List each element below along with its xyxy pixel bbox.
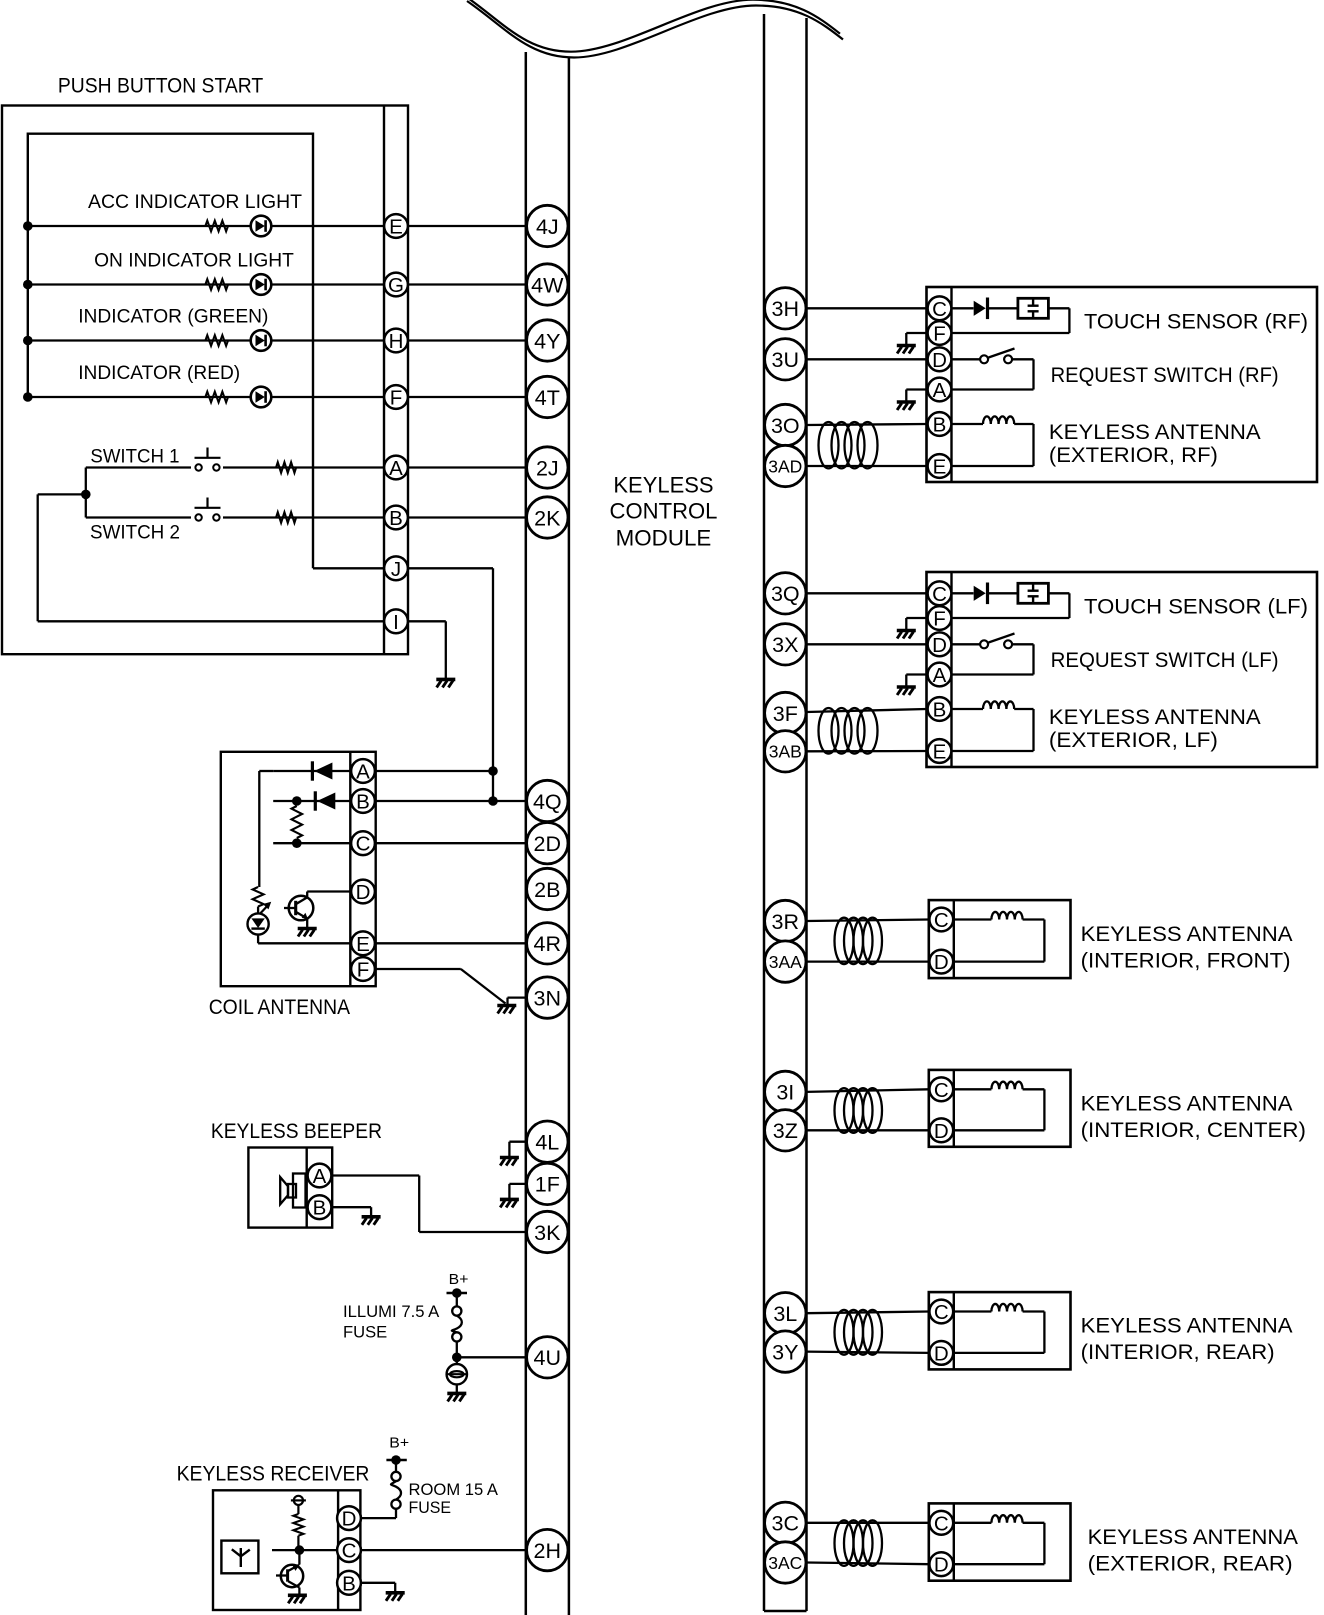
wire - beeper pin A to 3K xyxy=(332,1174,419,1176)
connector pin E exterior LF xyxy=(928,739,952,763)
wire - coil antenna pin A row xyxy=(273,770,350,772)
module pin 2H xyxy=(527,1529,568,1570)
svg-text:4Q: 4Q xyxy=(533,790,562,814)
connector pin C (INTERIOR, FRONT) xyxy=(929,908,953,932)
svg-text:C: C xyxy=(342,1540,357,1563)
module pin 4T xyxy=(527,376,568,417)
touch sensor / request switch / keyless antenna (exterior RF) box xyxy=(927,287,1318,482)
diode - coil antenna A xyxy=(311,761,314,780)
LED - on indicator light xyxy=(251,274,272,295)
touch sensor / request switch / keyless antenna (exterior LF) box xyxy=(927,572,1318,767)
svg-text:C: C xyxy=(934,909,949,932)
module pin 3H xyxy=(765,288,806,329)
connector pin F xyxy=(384,385,408,409)
svg-text:D: D xyxy=(934,1342,949,1365)
ground - coil antenna pin F / 3N xyxy=(497,1004,516,1008)
connector pin H xyxy=(384,329,408,353)
twisted pair - (INTERIOR, REAR) xyxy=(807,1312,929,1314)
ground - touch sensor (LF) xyxy=(897,629,916,633)
module pin 4L xyxy=(527,1121,568,1162)
svg-text:C: C xyxy=(934,1301,949,1324)
junction dot indicator (green) xyxy=(23,336,33,346)
connector pin E exterior RF xyxy=(928,454,952,478)
connector pin J xyxy=(384,556,408,580)
inductor - keyless antenna (INTERIOR, CENTER) xyxy=(954,1088,992,1090)
keyless antenna (INTERIOR, REAR) box xyxy=(929,1292,1071,1369)
wire - on indicator light row xyxy=(28,283,526,285)
connector strip - (INTERIOR, REAR) xyxy=(953,1292,955,1369)
inductor - keyless antenna (EXTERIOR, REAR) xyxy=(954,1522,992,1524)
resistor - switch 1 xyxy=(276,462,296,473)
svg-text:KEYLESS: KEYLESS xyxy=(613,473,713,498)
connector pin F exterior LF xyxy=(928,606,952,630)
svg-text:FUSE: FUSE xyxy=(343,1322,387,1341)
wire - coil antenna pin C row to 2D xyxy=(273,842,350,844)
module pin 3AA xyxy=(765,941,806,982)
wire - antenna loop (INTERIOR, CENTER) xyxy=(1023,1088,1045,1090)
svg-text:REQUEST SWITCH (RF): REQUEST SWITCH (RF) xyxy=(1051,363,1279,387)
svg-text:KEYLESS RECEIVER: KEYLESS RECEIVER xyxy=(177,1462,370,1486)
wire - pin J to coil antenna node xyxy=(313,567,384,569)
wire - 3Q to pin C xyxy=(807,592,927,594)
wire - transistor emitter to ground xyxy=(306,919,308,928)
inductor - keyless antenna exterior RF xyxy=(952,423,984,425)
svg-text:KEYLESS BEEPER: KEYLESS BEEPER xyxy=(211,1119,382,1143)
keyless antenna (EXTERIOR, REAR) box xyxy=(929,1503,1071,1580)
connector strip - push button start xyxy=(383,106,385,655)
request switch (RF) xyxy=(952,358,981,360)
speaker - keyless beeper xyxy=(293,1174,306,1208)
connector pin coil B xyxy=(351,789,375,813)
svg-text:3AD: 3AD xyxy=(768,456,802,476)
svg-text:F: F xyxy=(390,387,403,410)
svg-text:3R: 3R xyxy=(772,910,799,934)
ground - request switch (RF) xyxy=(897,400,916,404)
svg-text:3AA: 3AA xyxy=(769,952,802,972)
connector strip - keyless receiver xyxy=(337,1490,339,1610)
module pin 4R xyxy=(527,923,568,964)
svg-text:D: D xyxy=(356,881,371,904)
junction dot acc indicator light xyxy=(23,221,33,231)
connector pin G xyxy=(384,273,408,297)
svg-text:4T: 4T xyxy=(535,386,560,410)
ground - illumination lamp xyxy=(447,1392,466,1396)
ground - touch sensor (RF) xyxy=(897,344,916,348)
module pin 1F xyxy=(527,1163,568,1204)
svg-text:(EXTERIOR, LF): (EXTERIOR, LF) xyxy=(1049,728,1218,752)
wire - antenna loop (INTERIOR, FRONT) xyxy=(1023,918,1045,920)
connector pin beeper B xyxy=(308,1195,332,1219)
module pin 2J xyxy=(527,447,568,488)
svg-text:1F: 1F xyxy=(535,1173,560,1197)
wire - receiver pin B to ground xyxy=(360,1582,395,1584)
power B+ terminal (room) xyxy=(391,1455,401,1465)
module pin 3C xyxy=(765,1502,806,1543)
keyless antenna (INTERIOR, FRONT) box xyxy=(929,900,1071,978)
connector pin beeper A xyxy=(308,1164,332,1188)
svg-text:3O: 3O xyxy=(771,414,800,438)
wire - switch 2 row xyxy=(86,516,526,518)
request switch (LF) xyxy=(952,643,981,645)
diode - touch sensor (RF) xyxy=(952,307,974,309)
wire - coil antenna A internal left branch xyxy=(259,770,273,772)
LED - acc indicator light xyxy=(251,216,272,237)
wire - antenna loop to pin E (LF) xyxy=(1014,708,1033,710)
svg-text:(EXTERIOR, RF): (EXTERIOR, RF) xyxy=(1049,443,1218,467)
connector pin B exterior RF xyxy=(928,412,952,436)
connector pin C (INTERIOR, CENTER) xyxy=(929,1077,953,1101)
module pin 2D xyxy=(527,823,568,864)
connector pin F exterior RF xyxy=(928,321,952,345)
svg-text:KEYLESS ANTENNA: KEYLESS ANTENNA xyxy=(1088,1525,1299,1549)
module pin 3K xyxy=(527,1211,568,1252)
svg-text:ON INDICATOR LIGHT: ON INDICATOR LIGHT xyxy=(94,249,294,271)
module pin 4Y xyxy=(527,320,568,361)
connector pin A exterior RF xyxy=(928,378,952,402)
transistor - keyless receiver xyxy=(298,1550,300,1564)
svg-text:SWITCH 2: SWITCH 2 xyxy=(90,522,180,544)
svg-text:A: A xyxy=(313,1165,327,1188)
variable resistor - coil antenna xyxy=(253,887,264,907)
junction dot J node B row xyxy=(488,796,498,806)
module pin 3I xyxy=(765,1071,806,1112)
svg-text:B: B xyxy=(933,699,947,722)
connector pin coil C xyxy=(351,831,375,855)
transistor - coil antenna xyxy=(289,896,314,921)
wire - indicator (red) row xyxy=(28,396,526,398)
connector strip - exterior LF group xyxy=(950,572,952,767)
connector pin coil F xyxy=(351,957,375,981)
resistor - receiver xyxy=(297,1505,299,1514)
connector pin E xyxy=(384,214,408,238)
connector strip - (INTERIOR, CENTER) xyxy=(953,1070,955,1147)
touch pad - touch sensor (RF) xyxy=(1018,298,1049,318)
wire - pin F to ground (RF) xyxy=(906,332,926,334)
module pin 3AB xyxy=(765,731,806,772)
module pin 3U xyxy=(765,339,806,380)
svg-text:4W: 4W xyxy=(531,273,564,297)
svg-text:B: B xyxy=(389,507,403,530)
wire - antenna loop to pin E (RF) xyxy=(1014,423,1033,425)
wire - receiver C to 2H xyxy=(360,1549,525,1551)
svg-text:3AC: 3AC xyxy=(768,1553,802,1573)
connector pin coil D xyxy=(351,880,375,904)
connector pin B exterior LF xyxy=(928,697,952,721)
svg-text:E: E xyxy=(933,456,947,479)
svg-text:E: E xyxy=(389,216,403,239)
connector pin A exterior LF xyxy=(928,663,952,687)
ground - receiver transistor xyxy=(298,1588,300,1595)
svg-text:3U: 3U xyxy=(772,348,799,372)
arrow - variable resistor xyxy=(256,905,269,919)
module pin 4Q xyxy=(527,780,568,821)
ground - receiver pin B xyxy=(386,1591,405,1595)
svg-text:B: B xyxy=(933,414,947,437)
keyless receiver box xyxy=(213,1490,360,1610)
ground - 4L pin xyxy=(509,1141,525,1143)
svg-text:D: D xyxy=(932,634,947,657)
svg-text:C: C xyxy=(932,583,947,606)
module pin 3Q xyxy=(765,573,806,614)
svg-text:KEYLESS ANTENNA: KEYLESS ANTENNA xyxy=(1049,420,1261,444)
wire - 3X to pin D xyxy=(807,643,927,645)
wire - lamp to ground xyxy=(456,1384,458,1392)
resistor - switch 2 xyxy=(276,512,296,523)
svg-text:4U: 4U xyxy=(534,1346,561,1370)
module pin 4W xyxy=(527,264,568,305)
svg-text:4J: 4J xyxy=(536,215,559,239)
ground - request switch (LF) xyxy=(897,685,916,689)
module pin 3L xyxy=(765,1293,806,1334)
svg-text:J: J xyxy=(391,558,401,581)
svg-text:KEYLESS ANTENNA: KEYLESS ANTENNA xyxy=(1081,1091,1294,1115)
diode - touch sensor (LF) xyxy=(952,592,974,594)
svg-text:3Z: 3Z xyxy=(773,1119,798,1143)
ground - keyless beeper xyxy=(362,1215,381,1219)
connector pin D (INTERIOR, FRONT) xyxy=(929,950,953,974)
coil antenna box xyxy=(221,752,376,986)
wire - pin F to ground (LF) xyxy=(906,617,926,619)
connector pin I xyxy=(384,609,408,633)
switch SW1 (push button) xyxy=(191,460,223,475)
svg-text:3H: 3H xyxy=(772,297,799,321)
switch SW2 (push button) xyxy=(191,510,223,525)
wire - antenna loop (INTERIOR, REAR) xyxy=(1023,1310,1045,1312)
power B+ terminal (illumi) xyxy=(452,1288,462,1298)
svg-text:3C: 3C xyxy=(772,1512,799,1536)
module pin 2B xyxy=(527,868,568,909)
svg-text:H: H xyxy=(389,330,404,353)
keyless antenna (INTERIOR, CENTER) box xyxy=(929,1070,1071,1147)
inductor - keyless antenna (INTERIOR, REAR) xyxy=(954,1310,992,1312)
wire - transistor collector to pin D xyxy=(306,892,308,898)
connector pin C exterior LF xyxy=(928,581,952,605)
wire - coil antenna pin B row to 4Q xyxy=(273,800,350,802)
module pin 3R xyxy=(765,900,806,941)
connector pin B xyxy=(384,506,408,530)
connector pin receiver D xyxy=(337,1506,361,1530)
junction dot J node A row xyxy=(488,766,498,776)
svg-text:D: D xyxy=(932,349,947,372)
wire - request switch loop to pin A (RF) xyxy=(1012,358,1033,360)
svg-text:B: B xyxy=(342,1572,356,1595)
svg-text:B: B xyxy=(313,1197,327,1220)
junction dot coil B xyxy=(292,796,302,806)
svg-text:4R: 4R xyxy=(534,932,561,956)
svg-text:D: D xyxy=(342,1508,357,1531)
svg-text:CONTROL: CONTROL xyxy=(610,499,718,524)
wire - coil antenna LED to pin E xyxy=(257,935,259,944)
connector pin receiver C xyxy=(337,1538,361,1562)
resistor - indicator (red) xyxy=(205,392,228,403)
svg-text:F: F xyxy=(933,323,946,346)
ground - push button start pin I xyxy=(436,678,455,682)
wire - touch sensor loop to pin F (LF) xyxy=(1048,592,1069,594)
svg-text:3N: 3N xyxy=(534,986,561,1010)
svg-text:3X: 3X xyxy=(772,633,798,657)
ground - coil antenna transistor xyxy=(298,927,317,931)
keyless beeper box xyxy=(248,1148,332,1228)
module pin 3O xyxy=(765,404,806,445)
connector strip - (INTERIOR, FRONT) xyxy=(953,900,955,978)
wire - touch sensor loop to pin F (RF) xyxy=(1048,307,1069,309)
connector pin C (EXTERIOR, REAR) xyxy=(929,1511,953,1535)
resistor - indicator (green) xyxy=(205,335,228,346)
svg-text:MODULE: MODULE xyxy=(616,525,712,550)
svg-text:3L: 3L xyxy=(773,1302,797,1326)
junction dot coil C xyxy=(292,838,302,848)
module pin 3F xyxy=(765,692,806,733)
wire - pin A to ground (LF) xyxy=(906,673,926,675)
twisted pair - keyless antenna exterior LF xyxy=(807,709,927,712)
wire - request switch loop to pin A (LF) xyxy=(1012,643,1033,645)
wire - 3H to pin C xyxy=(807,307,927,309)
svg-text:A: A xyxy=(389,457,403,480)
svg-text:C: C xyxy=(356,833,371,856)
svg-text:A: A xyxy=(933,379,947,402)
svg-text:C: C xyxy=(932,298,947,321)
resistor - acc indicator light xyxy=(205,221,228,232)
fuse ILLUMI 7.5 A xyxy=(456,1293,458,1307)
connector strip - (EXTERIOR, REAR) xyxy=(953,1503,955,1580)
svg-text:(INTERIOR, FRONT): (INTERIOR, FRONT) xyxy=(1081,949,1291,973)
svg-text:ROOM 15 A: ROOM 15 A xyxy=(409,1480,499,1499)
svg-text:C: C xyxy=(934,1512,949,1535)
svg-text:3Y: 3Y xyxy=(772,1340,798,1364)
wire - switch common xyxy=(85,468,87,518)
twisted pair - keyless antenna exterior RF xyxy=(807,424,927,425)
svg-text:KEYLESS ANTENNA: KEYLESS ANTENNA xyxy=(1081,922,1294,946)
module pin 3AC xyxy=(765,1542,806,1583)
lamp - illumination xyxy=(456,1357,458,1364)
crystal - receiver top xyxy=(294,1496,303,1505)
connector pin C exterior RF xyxy=(928,296,952,320)
wire - coil antenna pin E row to 4R xyxy=(376,942,526,944)
svg-text:3I: 3I xyxy=(776,1081,794,1105)
junction dot switch common xyxy=(81,490,91,500)
svg-text:INDICATOR (RED): INDICATOR (RED) xyxy=(78,362,240,384)
module pin 3AD xyxy=(765,445,806,486)
svg-text:B: B xyxy=(356,791,370,814)
svg-text:COIL ANTENNA: COIL ANTENNA xyxy=(209,996,350,1019)
junction dot indicator (red) xyxy=(23,392,33,402)
connector pin A xyxy=(384,456,408,480)
wire - fuse to 4U xyxy=(457,1356,526,1358)
svg-text:F: F xyxy=(933,608,946,631)
LED - coil antenna xyxy=(248,913,269,934)
wire - switch 1 row xyxy=(86,466,526,468)
module pin 2K xyxy=(527,497,568,538)
svg-text:E: E xyxy=(356,933,370,956)
svg-text:ILLUMI 7.5 A: ILLUMI 7.5 A xyxy=(343,1302,440,1321)
svg-text:TOUCH SENSOR (RF): TOUCH SENSOR (RF) xyxy=(1084,310,1308,334)
svg-text:INDICATOR (GREEN): INDICATOR (GREEN) xyxy=(78,305,268,327)
svg-text:4L: 4L xyxy=(535,1131,559,1155)
junction dot receiver xyxy=(295,1545,305,1555)
wire - receiver pin D to fuse xyxy=(360,1517,396,1519)
antenna - receiver xyxy=(221,1541,258,1574)
LED - indicator (red) xyxy=(251,387,272,408)
wire - beeper pin B to ground xyxy=(332,1206,371,1208)
connector pin D (EXTERIOR, REAR) xyxy=(929,1552,953,1576)
resistor - coil antenna B-C xyxy=(292,806,303,838)
wire - ground to 3N xyxy=(506,998,508,1006)
resistor - on indicator light xyxy=(205,279,228,290)
svg-text:D: D xyxy=(934,1554,949,1577)
inductor - keyless antenna (INTERIOR, FRONT) xyxy=(954,918,992,920)
svg-text:A: A xyxy=(356,761,370,784)
connector pin D (INTERIOR, REAR) xyxy=(929,1341,953,1365)
svg-text:A: A xyxy=(933,664,947,687)
svg-text:3AB: 3AB xyxy=(769,742,802,762)
wire - pin A to ground (RF) xyxy=(906,388,926,390)
module pin 3N xyxy=(527,977,568,1018)
svg-text:3Q: 3Q xyxy=(771,582,800,606)
connector pin D (INTERIOR, CENTER) xyxy=(929,1118,953,1142)
svg-text:C: C xyxy=(934,1079,949,1102)
svg-text:2H: 2H xyxy=(534,1539,561,1563)
diode - coil antenna B xyxy=(314,791,317,810)
wire - keyless control module left bus xyxy=(525,52,528,1615)
LED - indicator (green) xyxy=(251,330,272,351)
svg-text:(EXTERIOR, REAR): (EXTERIOR, REAR) xyxy=(1088,1552,1293,1576)
svg-text:2B: 2B xyxy=(534,878,560,902)
wire - torn-edge break curve at top xyxy=(467,1,843,58)
svg-text:2D: 2D xyxy=(534,832,561,856)
ground - 1F pin xyxy=(509,1183,525,1185)
wire - acc indicator light row xyxy=(28,225,526,227)
connector strip - exterior RF group xyxy=(950,287,952,482)
wire - 3U to pin D xyxy=(807,358,927,360)
connector pin C (INTERIOR, REAR) xyxy=(929,1300,953,1324)
svg-text:KEYLESS ANTENNA: KEYLESS ANTENNA xyxy=(1049,705,1261,729)
wire - antenna loop (EXTERIOR, REAR) xyxy=(1023,1522,1045,1524)
module pin 3Y xyxy=(765,1331,806,1372)
svg-text:G: G xyxy=(388,274,404,297)
svg-text:(INTERIOR, REAR): (INTERIOR, REAR) xyxy=(1081,1340,1275,1364)
svg-text:(INTERIOR, CENTER): (INTERIOR, CENTER) xyxy=(1081,1118,1306,1142)
connector pin coil A xyxy=(351,759,375,783)
module pin 4U xyxy=(527,1337,568,1378)
svg-text:ACC INDICATOR LIGHT: ACC INDICATOR LIGHT xyxy=(88,191,302,213)
junction dot on indicator light xyxy=(23,280,33,290)
svg-text:E: E xyxy=(933,741,947,764)
wire - keyless control module right bus xyxy=(763,14,766,1611)
svg-text:REQUEST SWITCH (LF): REQUEST SWITCH (LF) xyxy=(1051,648,1279,672)
svg-text:D: D xyxy=(934,1120,949,1143)
svg-text:2J: 2J xyxy=(536,456,559,480)
svg-text:FUSE: FUSE xyxy=(409,1498,452,1517)
svg-text:D: D xyxy=(934,951,949,974)
svg-text:2K: 2K xyxy=(534,506,561,530)
svg-text:F: F xyxy=(357,959,370,982)
wire - pin I to ground xyxy=(409,620,446,622)
svg-text:TOUCH SENSOR (LF): TOUCH SENSOR (LF) xyxy=(1084,595,1308,619)
twisted pair - (EXTERIOR, REAR) xyxy=(807,1522,929,1524)
connector pin D exterior LF xyxy=(928,632,952,656)
svg-text:B+: B+ xyxy=(389,1435,409,1452)
svg-text:3F: 3F xyxy=(773,702,798,726)
connector strip - coil antenna xyxy=(349,752,351,986)
wire - receiver pin C row xyxy=(272,1549,338,1551)
svg-text:SWITCH 1: SWITCH 1 xyxy=(90,446,179,468)
svg-text:4Y: 4Y xyxy=(534,329,560,353)
connector strip - keyless beeper xyxy=(306,1148,308,1228)
push button start inner box xyxy=(28,134,313,569)
inductor - keyless antenna exterior LF xyxy=(952,708,984,710)
wire - coil antenna pin F to ground xyxy=(376,968,461,970)
connector pin D exterior RF xyxy=(928,347,952,371)
